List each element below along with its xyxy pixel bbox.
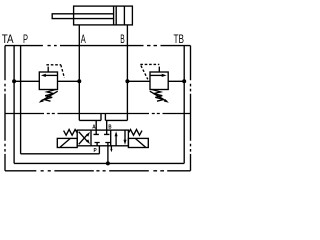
svg-text:B: B (120, 32, 125, 46)
wire A leg into valve (94, 120, 99, 134)
T mini arrow below valve (110, 146, 112, 150)
junction dot TA (12, 79, 16, 83)
P connection leg (98, 146, 100, 154)
junction dot TB (182, 79, 186, 83)
junction dot B (125, 79, 129, 83)
V2 spring (152, 89, 164, 101)
V1 adjust arrow (41, 91, 58, 101)
V1 spring (44, 89, 56, 101)
V2 right port wire (168, 80, 184, 82)
junction dot A (77, 79, 81, 83)
solenoid left (57, 138, 77, 147)
block outline right (phantom) (190, 46, 192, 171)
relief valve V2 box (150, 72, 168, 90)
V1 pilot line (47, 67, 49, 72)
V1 right port wire (58, 80, 80, 82)
wire B leg into valve (104, 120, 109, 134)
block outline left (phantom) (4, 46, 6, 171)
U1 center bottom blocked ports (95, 143, 100, 146)
junction dot T (106, 161, 110, 165)
block outline bottom (phantom) (5, 170, 191, 172)
cylinder barrel (74, 6, 133, 25)
V2 left port wire (127, 80, 150, 82)
svg-text:B: B (108, 124, 111, 130)
P channel (20, 46, 22, 154)
TB channel (183, 46, 185, 164)
wire B jog (105, 119, 127, 121)
svg-text:P: P (94, 148, 97, 154)
valve U1 body (77, 130, 128, 146)
cylinder rod (52, 14, 113, 19)
block outline top (phantom) (5, 45, 191, 47)
U1 left position X (79, 134, 88, 144)
V2 adjust arrow (150, 91, 167, 101)
node B line (126, 25, 128, 121)
solenoid right (128, 138, 148, 147)
module boundary line (phantom) (5, 113, 191, 115)
V1 left port wire (14, 80, 39, 82)
T drop from valve (107, 146, 109, 164)
wire A jog (79, 119, 101, 121)
spring left (64, 130, 78, 136)
V1 flow arrow (45, 74, 57, 76)
svg-text:A: A (92, 124, 95, 130)
svg-text:A: A (81, 32, 86, 46)
node A line (78, 25, 80, 121)
U1 right position arrows (115, 135, 117, 146)
svg-text:P: P (23, 32, 28, 46)
spring right (128, 130, 142, 136)
svg-text:TB: TB (174, 32, 185, 46)
V2 pilot line (158, 67, 160, 72)
relief valve V1 box (39, 72, 57, 90)
V2 flow arrow (151, 74, 163, 76)
P channel horizontal (21, 153, 100, 155)
TA channel (13, 46, 15, 164)
cylinder piston (114, 6, 117, 25)
cylinder divider (123, 6, 125, 25)
svg-text:TA: TA (2, 32, 14, 46)
tank line under valve (14, 162, 184, 164)
wire pedestal right (104, 114, 106, 121)
wire pedestal left (100, 114, 102, 121)
